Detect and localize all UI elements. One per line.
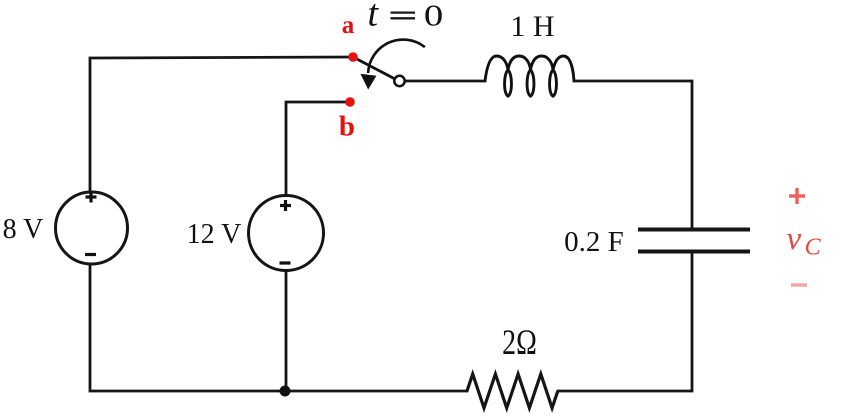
- svg-text:C: C: [805, 235, 822, 261]
- svg-text:2Ω: 2Ω: [502, 322, 537, 362]
- svg-text:0: 0: [424, 0, 443, 33]
- svg-text:1 H: 1 H: [510, 10, 554, 43]
- svg-text:8 V: 8 V: [3, 214, 44, 245]
- svg-text:0.2 F: 0.2 F: [564, 226, 624, 258]
- svg-text:12 V: 12 V: [187, 219, 242, 250]
- svg-text:t: t: [368, 0, 380, 35]
- svg-text:v: v: [786, 221, 801, 257]
- svg-text:a: a: [342, 12, 355, 39]
- svg-text:b: b: [339, 111, 355, 143]
